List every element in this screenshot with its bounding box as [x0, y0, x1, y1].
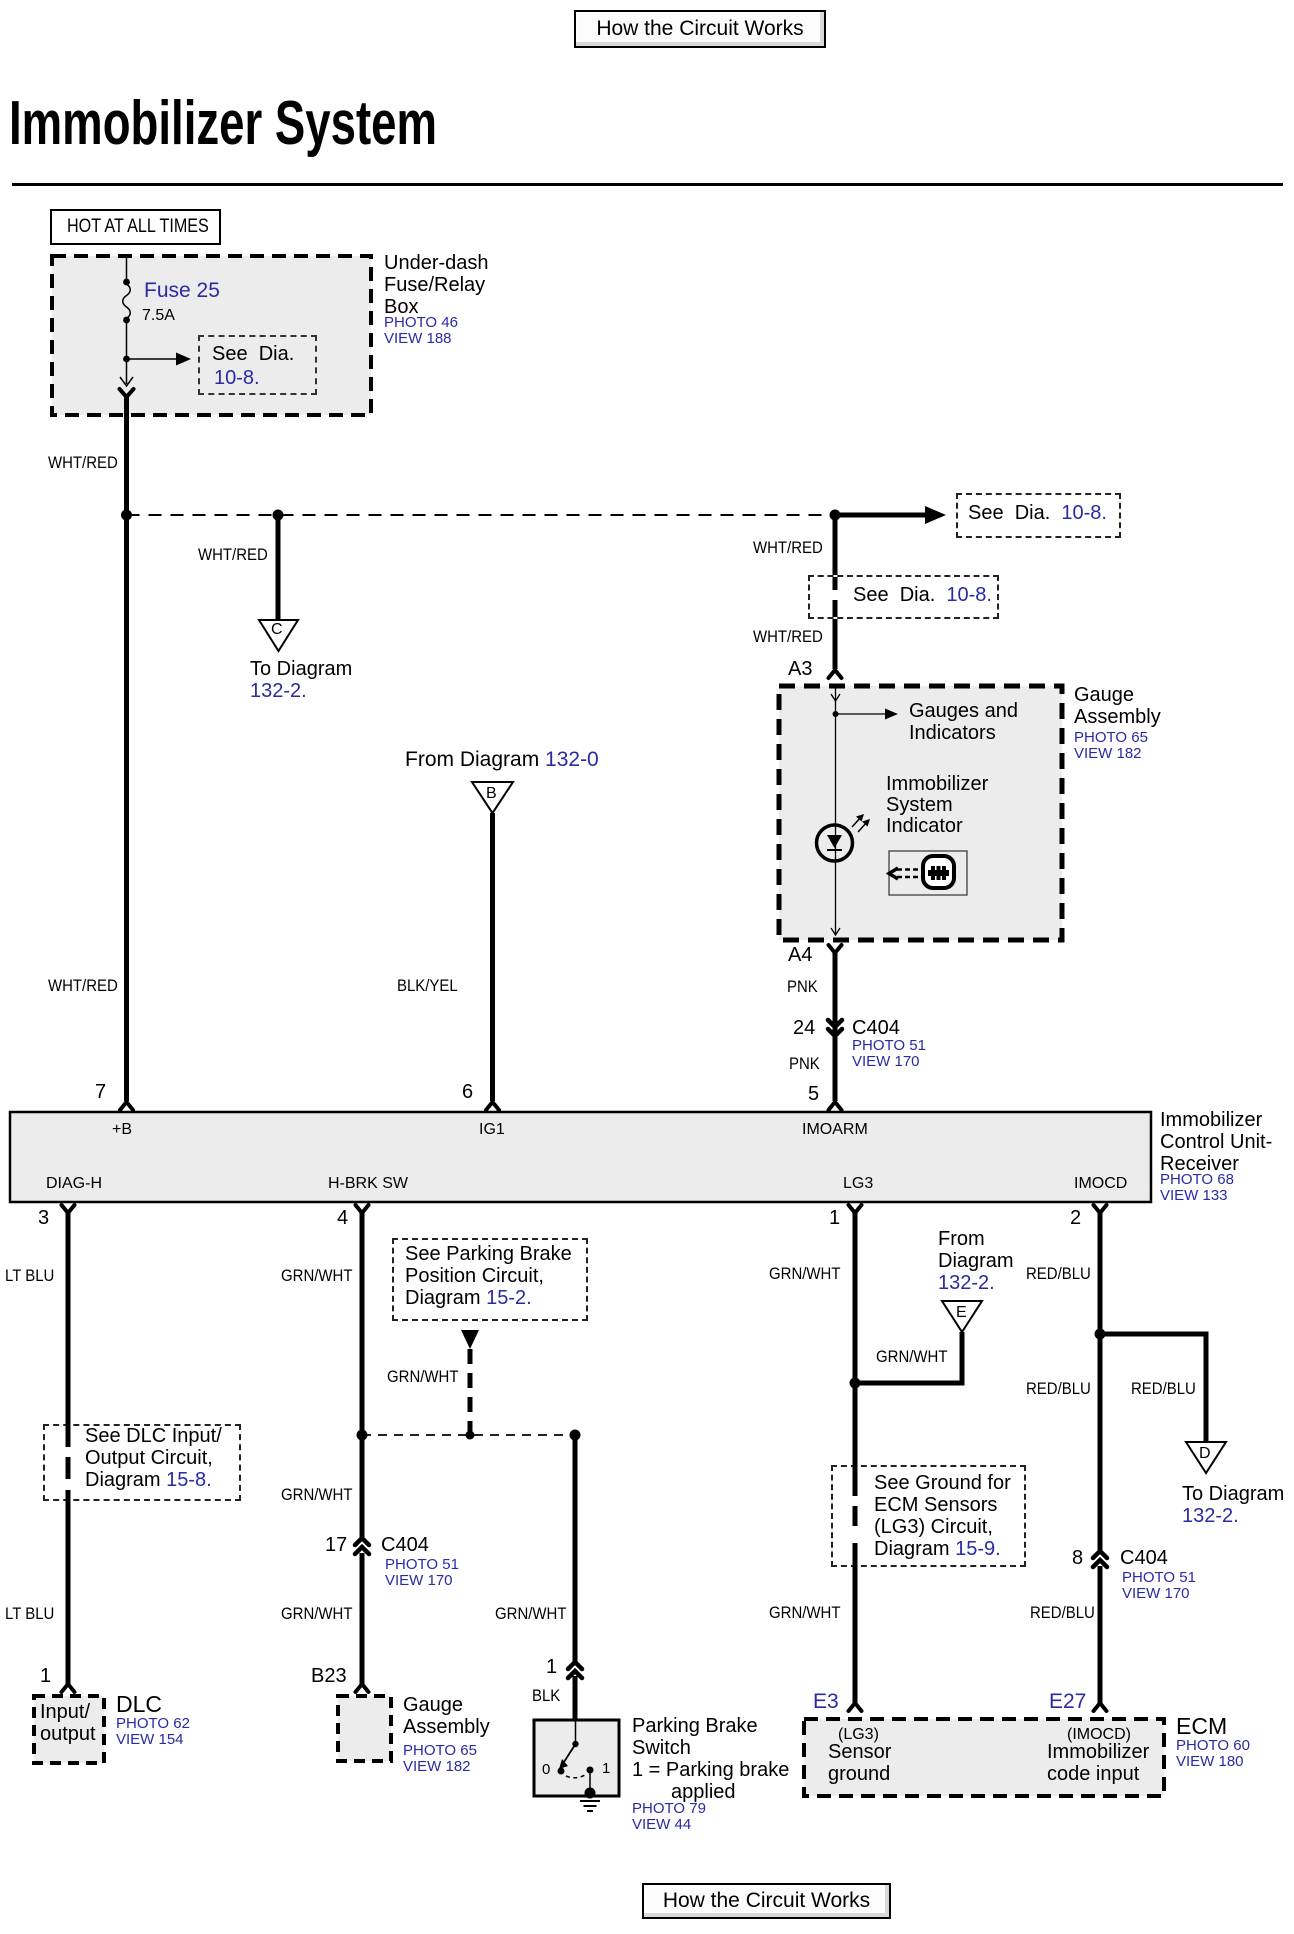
- off-page triangle D: [1186, 1442, 1226, 1473]
- reference box: see parking brake position circuit: [392, 1238, 588, 1321]
- label LT BLU 1: [5, 1267, 54, 1284]
- node: junction brake switch: [570, 1430, 581, 1441]
- label BLK: [532, 1687, 560, 1704]
- label WHT/RED 1: [48, 454, 118, 471]
- DLC box: [34, 1696, 104, 1763]
- label B23: [311, 1666, 347, 1686]
- label photo/view ICU: [1160, 1172, 1234, 1204]
- wire: E branch: [855, 1332, 962, 1383]
- label E3: [813, 1691, 839, 1712]
- label see DLC ref text: [85, 1425, 222, 1491]
- label 7.5A: [142, 308, 175, 324]
- label photo/view C404 right: [1122, 1570, 1196, 1602]
- node: junction main/bus: [121, 510, 132, 521]
- label pin 1: [829, 1208, 840, 1228]
- label DLC input/output: [40, 1701, 96, 1745]
- label +B: [112, 1122, 132, 1138]
- label from diagram 132-0: [405, 749, 599, 770]
- fuse F25 element: [123, 284, 131, 319]
- label E27: [1049, 1691, 1086, 1712]
- switch dashed throw arc: [566, 1775, 585, 1778]
- label immobilizer code input: [1047, 1741, 1149, 1785]
- label RED/BLU left: [1026, 1380, 1091, 1397]
- wire W7 GRN/WHT: [360, 1213, 365, 1537]
- label ECM: [1176, 1715, 1227, 1738]
- LED immobilizer indicator: [817, 825, 853, 861]
- label photo/view gauge assembly: [1074, 730, 1148, 762]
- connector at fuse box exit: [120, 389, 134, 397]
- label sensor ground: [828, 1741, 891, 1785]
- wire: fuse to junction: [126, 320, 128, 384]
- under-dash fuse/relay box: [52, 256, 371, 415]
- label photo/view ECM: [1176, 1738, 1250, 1770]
- connector pin 2: [1094, 1205, 1107, 1213]
- label pin 5: [808, 1084, 819, 1104]
- label pin 8: [1072, 1548, 1083, 1568]
- switch contact 0: [558, 1768, 565, 1775]
- wire stub in DLC ref box: [66, 1424, 71, 1447]
- label pin 7: [95, 1082, 106, 1102]
- label switch pin 1: [546, 1657, 557, 1677]
- label see dia 10-8 top right: [968, 502, 1107, 524]
- wire stub in ECM ground ref box: [853, 1465, 858, 1496]
- label DLC: [116, 1693, 162, 1716]
- label GRN/WHT dashed drop: [387, 1368, 458, 1385]
- label see dia 10-8 in fuse box: [212, 343, 294, 365]
- label gauge assembly: [1074, 684, 1161, 728]
- label WHT/RED 2: [198, 546, 268, 563]
- connector pin 6: [486, 1102, 499, 1110]
- label see parking brake ref text: [405, 1243, 572, 1309]
- wire W8 GRN/WHT to switch: [573, 1435, 578, 1662]
- connector pin 3: [62, 1205, 75, 1213]
- switch contact 1: [587, 1767, 594, 1774]
- node: fuse output junction: [123, 356, 130, 363]
- off-page triangle B: [472, 782, 513, 813]
- label GRN/WHT E branch: [876, 1348, 947, 1365]
- label pin 3: [38, 1208, 49, 1228]
- key icon: [923, 856, 954, 888]
- label WHT/RED 3: [753, 539, 823, 556]
- label GRN/WHT above switch: [495, 1605, 566, 1622]
- node: junction pin4: [357, 1430, 368, 1441]
- parking brake switch box: [534, 1720, 619, 1796]
- connector pin 4: [356, 1205, 369, 1213]
- label from diagram 132-2 (E): [938, 1228, 1014, 1294]
- connector pin 1: [849, 1205, 862, 1213]
- immobilizer control unit-receiver box U1: [10, 1112, 1151, 1202]
- label WHT/RED 4: [753, 628, 823, 645]
- label DIAG-H: [46, 1176, 102, 1192]
- wire: D branch: [1100, 1334, 1206, 1441]
- connector A3: [829, 670, 842, 678]
- label photo/view fuse box: [384, 315, 458, 347]
- key icon frame: [889, 851, 967, 895]
- label IG1: [479, 1122, 505, 1138]
- label gauges and indicators: [909, 700, 1018, 744]
- label pin 2: [1070, 1208, 1081, 1228]
- wire W10 RED/BLU IMOCD: [1098, 1213, 1103, 1550]
- label DLC pin 1: [40, 1666, 51, 1686]
- switch lever: [564, 1744, 576, 1762]
- label see ground ECM ref text: [874, 1472, 1011, 1560]
- connector E3: [849, 1703, 862, 1711]
- wire W9 GRN/WHT LG3: [853, 1213, 858, 1496]
- reference box: see dia 10-8 top right: [956, 493, 1121, 538]
- wire: arrow to See Dia. 10-8 right: [835, 513, 928, 518]
- gauge assembly box: [779, 686, 1062, 940]
- wire: dashed tie line: [362, 1434, 575, 1436]
- button how the circuit works top: [574, 10, 826, 48]
- off-page triangle C: [259, 620, 298, 651]
- label (LG3): [838, 1727, 879, 1743]
- label GRN/WHT above C404 17: [281, 1486, 352, 1503]
- label GRN/WHT pin4: [281, 1267, 352, 1284]
- wire: dashed bus line: [127, 514, 834, 516]
- ground symbol: [580, 1800, 600, 1802]
- label pin 17: [325, 1535, 347, 1555]
- label GRN/WHT pin1: [769, 1265, 840, 1282]
- node: switch ground: [585, 1788, 596, 1799]
- connector DLC pin 1: [62, 1684, 75, 1692]
- arrowhead to A4: [831, 928, 840, 935]
- reference box: see ground for ECM sensors: [831, 1465, 1026, 1567]
- node: junction branch C: [273, 510, 284, 521]
- node: junction branch A3: [830, 510, 841, 521]
- connector B23: [356, 1684, 369, 1692]
- label pin 24: [793, 1018, 815, 1038]
- label photo/view C404 top: [852, 1038, 926, 1070]
- label RED/BLU pin2: [1026, 1265, 1091, 1282]
- label gauge assembly bottom: [403, 1694, 490, 1738]
- label switch 1: [602, 1761, 610, 1776]
- label immobilizer system indicator: [886, 774, 988, 837]
- connector C404 pin 8: [1093, 1551, 1107, 1558]
- label switch 0: [542, 1762, 550, 1777]
- label photo/view C404 mid: [385, 1557, 459, 1589]
- label RED/BLU right: [1131, 1380, 1196, 1397]
- label A3: [788, 659, 812, 679]
- label triangle E: [956, 1305, 967, 1321]
- label A4: [788, 945, 812, 965]
- label LG3: [843, 1176, 873, 1192]
- wire: branch down to triangle C: [276, 515, 281, 620]
- fuse F25 terminal node bottom: [123, 317, 130, 324]
- wire W5 BLK/YEL: [490, 813, 495, 1101]
- switch contact to ground wire: [589, 1770, 591, 1792]
- page title: [9, 93, 437, 155]
- reference box: see dia 10-8 on wire: [808, 575, 999, 619]
- label RED/BLU above C404 8: [1030, 1604, 1095, 1621]
- LED light arrows: [852, 817, 861, 827]
- connector E27: [1094, 1703, 1107, 1711]
- label see dia 10-8 on wire: [853, 584, 992, 606]
- label pin 6: [462, 1082, 473, 1102]
- wire: thin gauge internal vertical: [835, 687, 837, 935]
- label IMOCD: [1074, 1176, 1127, 1192]
- wire W1 WHT/RED main vertical: [124, 397, 129, 1101]
- connector C404 pin 24: [828, 1020, 842, 1027]
- label triangle D: [1199, 1446, 1211, 1462]
- wire stub in see dia box: [833, 577, 838, 590]
- label photo/view DLC: [116, 1716, 190, 1748]
- label HOT AT ALL TIMES box: [50, 209, 221, 245]
- label photo/view parking brake: [632, 1801, 706, 1833]
- wire: dashed GRN/WHT drop: [468, 1349, 473, 1431]
- gauge assembly box B23: [338, 1696, 391, 1761]
- connector C404 pin 17: [355, 1538, 369, 1545]
- arrowhead into gauge box: [831, 694, 840, 701]
- label photo/view gauge assembly bottom: [403, 1743, 477, 1775]
- label LT BLU 2: [5, 1605, 54, 1622]
- connector pin 7: [120, 1102, 133, 1110]
- label C404 right: [1120, 1547, 1168, 1569]
- label WHT/RED 5: [48, 977, 118, 994]
- wire: arrow to gauges and indicators: [836, 713, 889, 715]
- label triangle C: [271, 622, 283, 638]
- fuse F25 terminal node top: [123, 279, 130, 286]
- label H-BRK SW: [328, 1176, 408, 1192]
- label pin 4: [337, 1208, 348, 1228]
- label C404 mid: [381, 1534, 429, 1556]
- connector A4: [829, 945, 842, 953]
- label PNK 1: [787, 978, 818, 995]
- wire: fuse feed inside fuse box: [126, 256, 128, 281]
- label triangle B: [486, 786, 497, 802]
- switch pivot node: [572, 1741, 578, 1747]
- label IMOARM: [802, 1122, 868, 1138]
- node: gauge internal junction: [833, 711, 839, 717]
- arrowhead into fuse box exit: [120, 377, 133, 386]
- wire W4 PNK: [833, 953, 838, 1101]
- label PNK 2: [789, 1055, 820, 1072]
- label immobilizer control unit-receiver: [1160, 1109, 1272, 1175]
- label to diagram 132-2 (C): [250, 658, 352, 702]
- label GRN/WHT above E3: [769, 1604, 840, 1621]
- label to diagram 132-2 (D): [1182, 1483, 1284, 1527]
- switch internal wire: [575, 1721, 577, 1744]
- wire W6 LT BLU: [66, 1213, 71, 1424]
- connector pin 5: [829, 1102, 842, 1110]
- label fuse 25: [144, 280, 220, 301]
- node: junction parking ref: [466, 1431, 475, 1440]
- node: junction D branch: [1095, 1329, 1106, 1340]
- title rule: [12, 183, 1283, 186]
- label under-dash fuse/relay box: [384, 252, 489, 318]
- wire: arrow to See Dia. 10-8: [127, 358, 181, 360]
- label GRN/WHT above B23: [281, 1605, 352, 1622]
- connector switch pin 1: [568, 1662, 582, 1669]
- wire W3 WHT/RED to A3: [833, 515, 838, 576]
- label C404 top: [852, 1017, 900, 1039]
- label (IMOCD): [1067, 1727, 1131, 1743]
- reference box: see dia 10-8 in fuse box: [198, 335, 317, 395]
- node: junction E branch: [850, 1378, 861, 1389]
- label parking brake switch: [632, 1715, 789, 1803]
- off-page triangle E: [942, 1301, 982, 1332]
- arrowhead from parking brake ref: [461, 1330, 479, 1349]
- reference box: see DLC input/output circuit: [43, 1424, 241, 1501]
- label BLK/YEL: [397, 977, 458, 994]
- button how the circuit works bottom: [642, 1883, 891, 1919]
- ECM box: [804, 1719, 1164, 1796]
